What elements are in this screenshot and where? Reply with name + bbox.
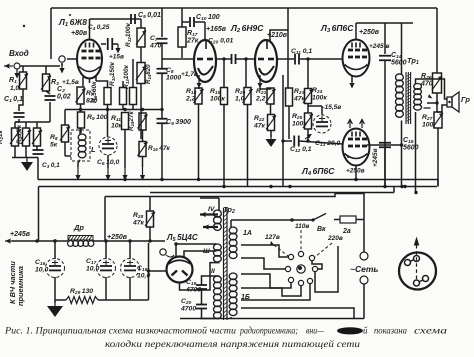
capacitor C3 (33, 150, 44, 154)
transformer Tr2 wII (214, 276, 222, 319)
wire R3 bottom (46, 91, 50, 94)
svg-text:Др: Др (73, 223, 84, 232)
wire left col2 b (25, 146, 27, 158)
resistor R22 (266, 115, 276, 131)
wire mains run (231, 220, 313, 228)
wire R6 bot (107, 105, 109, 138)
svg-text:Гр: Гр (461, 95, 470, 104)
wire interstage (216, 58, 231, 60)
label R6 (91, 81, 98, 103)
label C9 (166, 119, 191, 127)
socket axis (416, 245, 418, 280)
wire R18 bot (198, 104, 200, 180)
svg-text:показана: показана (374, 326, 407, 336)
label C7 (149, 35, 162, 49)
svg-text:1,0: 1,0 (10, 85, 19, 92)
label C18 (137, 265, 150, 279)
resistor R20 (243, 88, 253, 105)
wire t2 cath (260, 87, 271, 89)
label 220v (327, 235, 343, 242)
wire anode up (89, 19, 91, 40)
wire C11 to L3 grid (299, 58, 343, 60)
tube U2a 6N9S triode 1 (194, 40, 216, 88)
svg-text:R1647к: R1647к (148, 145, 170, 152)
label R10 (109, 61, 116, 86)
svg-text:Вход: Вход (9, 49, 29, 58)
junction j-sw (290, 218, 293, 221)
wire mid bus 1 (38, 180, 438, 187)
wire R27 bot (437, 128, 439, 187)
wire bottom bus drop (363, 284, 365, 319)
wire Tr1 sec top (416, 79, 448, 99)
wire top bus right drop to R26 (436, 8, 438, 73)
wire C17-C18 bottom (106, 299, 130, 301)
wire C14 drop (384, 23, 386, 54)
label R13 (123, 64, 130, 89)
svg-text:C93900: C93900 (166, 119, 191, 127)
contact D (285, 266, 290, 271)
tube U5 5Ts4S rectifier (167, 257, 193, 283)
junction j0 (123, 178, 126, 181)
tube U4 6P6S (343, 129, 370, 166)
label +165v (206, 26, 227, 33)
junction j3 (269, 185, 272, 188)
svg-text:R14820: R14820 (145, 64, 152, 84)
capacitor C2 (45, 96, 56, 100)
heater arrow 2 (203, 224, 218, 229)
wire C3 bottom (37, 158, 39, 180)
coil L (78, 134, 86, 158)
label C12 (290, 146, 312, 154)
terminal mains top (360, 252, 368, 260)
junction d1 (35, 239, 38, 242)
label +245v bus (10, 231, 31, 238)
label seti (350, 264, 378, 274)
junction j8 (400, 185, 403, 188)
label +250v (359, 29, 380, 36)
wire R15-R16 (142, 130, 144, 142)
svg-text:0,02: 0,02 (57, 94, 71, 101)
label R26 (420, 73, 433, 88)
resistor R15 (138, 113, 148, 130)
svg-text:Рис. 1. Принципиальная схема н: Рис. 1. Принципиальная схема низкочастот… (4, 326, 237, 336)
label IA (243, 230, 252, 237)
capacitor C20i (232, 54, 236, 64)
wire left row link (15, 121, 50, 123)
wire C12 to L4 (299, 141, 343, 144)
resistor R14 (136, 63, 146, 84)
label R21 (255, 88, 267, 102)
caption blob (337, 326, 368, 336)
svg-text:+245 в: +245 в (369, 43, 389, 50)
label K VCh 2 (16, 266, 25, 306)
wire R12 top (140, 19, 142, 28)
label R20 (235, 88, 246, 102)
svg-text:127в: 127в (265, 234, 280, 241)
wire anode top run (90, 18, 142, 20)
svg-text:4700: 4700 (180, 305, 196, 312)
wire top B+ bus (51, 7, 437, 9)
junction j-L3g (306, 57, 309, 60)
svg-text:220в: 220в (327, 235, 343, 242)
wire R8 top (64, 110, 66, 126)
wire R13 top (132, 59, 134, 88)
junction j6 (354, 178, 357, 181)
electrolytic C16 (46, 259, 65, 278)
wire C6 bot (107, 155, 109, 168)
grid-cap terminal (59, 56, 65, 62)
wire mid row (65, 108, 164, 111)
svg-text:100: 100 (422, 121, 434, 128)
wire heater line (104, 197, 106, 242)
label R12 (125, 22, 132, 47)
wire R11 bot (124, 130, 126, 169)
capacitor C12 (294, 136, 299, 147)
wire cathode leads (83, 76, 96, 86)
wire R25 bot (307, 129, 309, 141)
wire R28 bot (149, 227, 151, 241)
resistor R21 (266, 88, 276, 104)
svg-text:R12100к: R12100к (125, 22, 132, 47)
wire C9 bot (161, 123, 163, 180)
wire mid bus 4 (105, 194, 364, 220)
svg-text:C11 0,1: C11 0,1 (291, 48, 312, 56)
junction j11 (53, 239, 56, 242)
wire R20 bot (247, 105, 249, 187)
wire L5 cath left (147, 269, 167, 272)
resistor R28 (145, 211, 155, 227)
label R25 (292, 113, 307, 127)
label C20i (208, 38, 234, 46)
resistor R9 (78, 112, 85, 128)
label IB (241, 294, 250, 301)
coil L box (71, 130, 90, 161)
transformer Tr2 core (224, 208, 228, 320)
svg-text:+165в: +165в (206, 26, 227, 33)
caption line 1c (306, 326, 325, 336)
wire mid bus 3 (150, 187, 394, 193)
choke Dr coil (68, 241, 94, 247)
choke Dr (68, 236, 93, 241)
wire R12-R14 (140, 47, 142, 62)
wire sel 4 (241, 286, 301, 296)
capacitor C5 fb (131, 14, 135, 24)
wire R16 gnd arrow (140, 167, 145, 181)
wire C6 gnd arrow (105, 168, 110, 181)
wire R23 col (288, 87, 289, 89)
caption line 1d (374, 326, 407, 336)
wire C4 tap (101, 43, 106, 45)
label R24 (312, 87, 327, 101)
label C17 (86, 258, 99, 272)
socket arrow (414, 237, 420, 246)
label C10 (196, 14, 220, 22)
label R29 (70, 288, 93, 296)
wire j-c12 down (282, 141, 284, 187)
resistor R24 (303, 89, 313, 104)
caption line 1a (4, 326, 237, 336)
svg-text:R21к: R21к (0, 129, 4, 144)
wire sel 1 (241, 245, 288, 257)
capacitor C11 (295, 54, 299, 65)
wire L5 anode1 (174, 242, 216, 256)
resistor R17 (178, 27, 186, 47)
wire C18 col bottom (129, 277, 131, 300)
wire mid bus 2 (39, 187, 438, 242)
socket pin 4 (423, 276, 429, 282)
wire L gnd arrow (75, 167, 80, 181)
wire B+ drop t2 (287, 8, 289, 88)
svg-text:~Сеть: ~Сеть (350, 264, 378, 274)
capacitor C1 (14, 113, 25, 117)
speck 2 (69, 14, 71, 16)
speck 3 (347, 156, 349, 158)
resistor R7 (76, 87, 86, 104)
svg-text:Вк: Вк (317, 226, 326, 233)
svg-text:5600: 5600 (403, 145, 419, 152)
wire sel 6 (315, 246, 338, 292)
label R15 (128, 111, 135, 131)
svg-text:L: L (91, 145, 96, 154)
wire C18 col top (129, 241, 131, 259)
svg-text:R10150к: R10150к (109, 61, 116, 86)
ground gnd1 (21, 158, 33, 171)
label R3 (51, 79, 59, 87)
wire +245 bus left (12, 240, 68, 242)
svg-text:1000: 1000 (166, 74, 181, 81)
label +15v (109, 54, 124, 61)
junction j4 (288, 185, 291, 188)
svg-text:II: II (211, 268, 215, 275)
switch Vk (311, 214, 326, 222)
wire C7C8 col top (161, 8, 163, 37)
wire C8 bot (161, 73, 163, 118)
label L2 (230, 23, 264, 34)
label Vk (317, 226, 326, 233)
resistor R19 (221, 88, 228, 105)
gnd arrow L3 (349, 80, 354, 89)
transformer Tr2 wIII (214, 244, 222, 262)
svg-text:+15в: +15в (109, 54, 124, 61)
label Tr1 (407, 56, 419, 66)
wire t1 cath (198, 87, 200, 89)
resistor R3 pot (41, 74, 51, 91)
svg-text:R43,3к: R43,3к (16, 124, 23, 144)
ground gnd R22 (266, 135, 277, 147)
wire j-c12 up (282, 75, 284, 141)
resistor R26 (432, 73, 442, 93)
svg-text:47к: 47к (253, 122, 266, 129)
wire C14 bot (384, 60, 386, 187)
wire left col3 (36, 122, 38, 128)
label +1.7v (181, 71, 198, 78)
svg-text:Л26Н9С: Л26Н9С (230, 23, 264, 34)
wire R1 top (22, 66, 24, 72)
wire C17 col top (105, 241, 107, 259)
label -15.5v (321, 104, 341, 111)
wire R19 bot (223, 105, 225, 187)
wire fuse down (363, 220, 365, 253)
svg-text:Ш: Ш (203, 248, 210, 255)
label 110v (295, 223, 309, 230)
label C8 (166, 67, 181, 81)
caption line 2 (105, 339, 361, 349)
label C15 (403, 137, 419, 152)
label R16 (148, 145, 170, 152)
wire left col1 b (14, 146, 16, 158)
svg-text:27к: 27к (186, 38, 199, 45)
label +245v vert (372, 148, 379, 167)
wire C4 right (112, 43, 118, 45)
transformer Tr1 primary (396, 74, 404, 117)
svg-text:Л55Ц4С: Л55Ц4С (166, 233, 198, 243)
wire wII top (202, 276, 220, 285)
svg-text:100к: 100к (312, 94, 327, 101)
label 2a (342, 228, 351, 235)
wire R10 bot (122, 105, 124, 110)
svg-text:приемника: приемника (16, 266, 25, 306)
caption line 1b (239, 326, 298, 336)
transformer Tr1 secondary (414, 84, 422, 111)
label K VCh (8, 261, 17, 304)
junction j7 (383, 185, 386, 188)
label L5 (166, 233, 198, 243)
resistor R27 (433, 112, 443, 128)
svg-text:10к: 10к (111, 122, 123, 129)
wire R14 bot (140, 84, 142, 140)
wire Tr1 prim bot (401, 121, 403, 187)
label IV (208, 206, 216, 213)
resistor R11 (122, 113, 129, 130)
wire C17 col bottom (105, 277, 107, 300)
svg-text:1,0: 1,0 (235, 95, 245, 102)
wire R8 bot (65, 142, 71, 156)
svg-text:C20 0,01: C20 0,01 (208, 38, 234, 46)
label C13 (315, 140, 341, 148)
label L3 (320, 23, 354, 34)
wire L4 bot (355, 166, 357, 180)
wire grid4 run (283, 135, 311, 143)
label Dr (73, 223, 84, 232)
junction j1 (197, 178, 200, 181)
wire t1 grid (193, 60, 195, 62)
wire R16 bot (142, 157, 144, 168)
wire R29 left link (55, 299, 66, 301)
svg-text:вни—: вни— (306, 326, 325, 336)
svg-text:2а: 2а (342, 228, 351, 235)
electrolytic C17 (97, 259, 116, 278)
resistor R16 (138, 142, 148, 157)
resistor R25 (303, 113, 313, 129)
wire sel 7 (312, 261, 322, 269)
svg-text:10,0: 10,0 (35, 266, 48, 273)
contact C (309, 255, 314, 260)
contact F (312, 266, 317, 271)
wire L top (79, 128, 81, 134)
svg-text:+245в: +245в (10, 231, 31, 238)
wire left col2 (25, 122, 27, 128)
contact E center (297, 265, 305, 273)
terminal L5 arrow (166, 255, 174, 257)
wire C13 top (308, 106, 322, 115)
speck 1 (23, 25, 25, 27)
socket pin 3 (414, 280, 424, 286)
label +1.5v (62, 79, 79, 86)
label R27 (422, 114, 434, 128)
svg-text:R13100к: R13100к (123, 64, 130, 89)
wire L5 anode2 (184, 251, 217, 258)
arrow 127v (270, 241, 288, 256)
label L1 (58, 17, 87, 28)
tube U3 6P6S (343, 40, 370, 77)
wire C10 run (182, 21, 189, 23)
wire L4 anode (367, 143, 403, 146)
transformer Tr2 wIB (229, 273, 237, 319)
capacitor C19 (196, 285, 207, 289)
wire R17 bot (181, 47, 183, 58)
wire wIV top (218, 198, 220, 211)
label 127v (265, 234, 280, 241)
capacitor C8 (157, 69, 168, 74)
label C6 (97, 159, 120, 167)
label C2 (57, 86, 71, 101)
label +210v (267, 32, 288, 39)
svg-text:10,0: 10,0 (86, 265, 99, 272)
svg-text:Л36П6С: Л36П6С (320, 23, 354, 34)
label Tr2 (223, 205, 235, 215)
label C4 (88, 24, 110, 31)
resistor R12 trimmer (136, 28, 146, 47)
speaker Gr (447, 92, 459, 112)
label Gr (461, 95, 470, 104)
resistor R1 volume pot (18, 72, 28, 89)
label +250v L4 (346, 168, 365, 175)
resistor R2 (10, 128, 20, 146)
svg-text:колодки переключателя напряжен: колодки переключателя напряжения питающе… (105, 339, 361, 349)
label C5 (138, 12, 161, 20)
capacitor C10 (190, 17, 194, 27)
resistor R29 wirewound (66, 297, 98, 304)
wire C7-C8 (161, 43, 163, 69)
label L4 (301, 166, 335, 177)
caption line 1e (414, 326, 448, 336)
wire C16 col top (54, 241, 56, 259)
wire cath r6 (96, 81, 108, 87)
wire R7 bot (80, 104, 82, 112)
wire L4 heater arrows (348, 119, 365, 128)
label C14 (391, 52, 407, 67)
svg-text:470: 470 (420, 81, 433, 88)
contact H (298, 280, 303, 285)
label L (91, 145, 96, 154)
wire C15 bot (384, 147, 386, 186)
svg-text:C30,1: C30,1 (42, 162, 60, 169)
wire anode t1 (204, 22, 206, 40)
wire HV center tap (130, 243, 149, 300)
svg-text:5600: 5600 (391, 60, 407, 67)
svg-text:+250в: +250в (359, 29, 380, 36)
svg-text:Л46П6С: Л46П6С (301, 166, 335, 177)
junction j12 (148, 239, 151, 242)
svg-text:C10100: C10100 (196, 14, 220, 22)
terminal L5 top (160, 249, 166, 255)
capacitor C4 (108, 38, 113, 50)
label R11 (111, 115, 123, 129)
electrolytic C18 (121, 259, 140, 278)
svg-text:схема: схема (414, 326, 448, 336)
wire R10 top (122, 81, 124, 88)
label C20 (180, 298, 196, 312)
